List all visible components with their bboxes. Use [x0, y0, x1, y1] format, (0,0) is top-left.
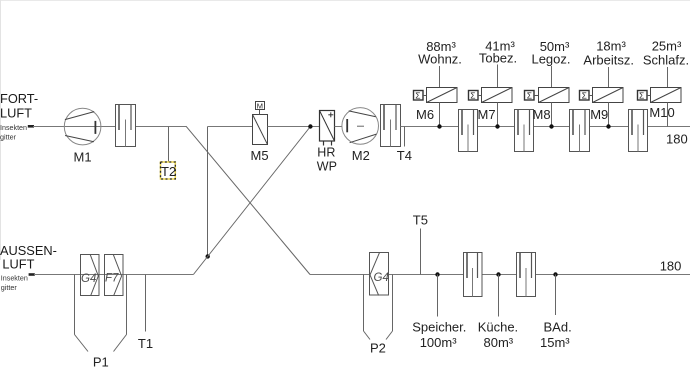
silencer manifold 2 [515, 110, 534, 152]
wire bypass vertical [207, 127, 209, 257]
fan M2 [342, 108, 379, 145]
wire P2 tap left [363, 275, 365, 332]
wire P1 tap left [74, 275, 76, 335]
wire AUSSENLUFT inlet [34, 274, 193, 276]
branch labels Legoz [531, 39, 570, 67]
sigma box M7 [469, 91, 482, 101]
svg-text:Arbeitsz.: Arbeitsz. [583, 53, 634, 68]
filter F7 [105, 255, 124, 296]
wire Bad branch [555, 275, 557, 316]
svg-text:Σ: Σ [582, 91, 587, 101]
wire branch M9 upper [608, 67, 610, 88]
node bypass junction [206, 254, 210, 258]
wire P2 tap right [392, 275, 394, 332]
svg-text:Speicher.: Speicher. [412, 320, 466, 335]
svg-text:25m³: 25m³ [652, 39, 682, 54]
svg-text:gitter: gitter [1, 283, 17, 292]
label Insektengitter bottom [1, 273, 28, 292]
svg-text:M1: M1 [74, 150, 92, 165]
svg-text:HR: HR [317, 146, 335, 160]
svg-text:Tobez.: Tobez. [479, 51, 517, 66]
svg-text:T2: T2 [161, 164, 176, 179]
svg-text:Küche.: Küche. [478, 320, 518, 335]
wire branch M6 upper [439, 66, 441, 88]
svg-text:M10: M10 [649, 105, 674, 120]
wire branch M7 lower [497, 103, 499, 127]
stem to T2 [168, 127, 170, 163]
wire P2 slant left [364, 331, 371, 340]
faint top border [0, 0, 690, 2]
wire branch M8 lower [551, 103, 553, 127]
svg-text:FORT-: FORT- [0, 91, 38, 106]
svg-text:M5: M5 [251, 148, 269, 163]
wire branch M6 lower [439, 103, 441, 127]
stem T4 [404, 127, 406, 147]
svg-text:T4: T4 [397, 148, 412, 163]
fan M1 [64, 108, 101, 145]
svg-text:F7: F7 [105, 273, 119, 285]
wire diagonal supply cross [193, 127, 310, 275]
svg-text:180: 180 [666, 132, 688, 147]
sensor T2 [161, 162, 177, 179]
svg-text:M9: M9 [590, 107, 608, 122]
filter G4 right [370, 253, 389, 296]
label Bad [540, 320, 572, 351]
svg-text:Schlafz.: Schlafz. [643, 53, 689, 68]
svg-text:gitter: gitter [0, 133, 16, 142]
wire P2 slant right [386, 331, 393, 340]
sigma box M8 [525, 91, 539, 101]
filter G4 left [81, 255, 100, 296]
svg-text:T1: T1 [138, 336, 153, 351]
node supply junction [308, 124, 312, 128]
svg-text:Σ: Σ [415, 91, 420, 101]
svg-text:Σ: Σ [527, 91, 532, 101]
svg-text:M6: M6 [416, 107, 434, 122]
svg-text:M7: M7 [478, 107, 496, 122]
wire HRWP to M2 [335, 126, 343, 128]
svg-text:Insekten: Insekten [0, 123, 27, 132]
branch labels Arbeitsz [583, 39, 634, 68]
label HR WP [317, 146, 337, 174]
sigma box M9 [580, 91, 593, 101]
node Speicher [435, 272, 439, 276]
svg-text:T5: T5 [413, 213, 428, 228]
svg-text:Σ: Σ [470, 91, 475, 101]
sigma box M10 [638, 91, 651, 101]
wire branch M10 upper [667, 67, 669, 88]
damper M9 [593, 88, 624, 103]
branch labels Schlafz [643, 39, 689, 68]
svg-text:BAd.: BAd. [544, 320, 572, 335]
svg-text:100m³: 100m³ [420, 335, 458, 350]
branch labels Tobez [479, 39, 517, 66]
svg-text:M2: M2 [352, 148, 370, 163]
silencer T4 [381, 105, 401, 147]
damper M5 [253, 115, 268, 145]
label Kueche [478, 320, 518, 351]
damper M7 [482, 88, 513, 103]
label FORTLUFT [0, 91, 38, 121]
silencer manifold 1 [459, 110, 478, 152]
damper M10 [651, 88, 682, 103]
wire bypass horizontal to M5 [208, 126, 253, 128]
label AUSSENLUFT [0, 243, 57, 272]
wire supply manifold [401, 126, 690, 128]
node Kueche [496, 272, 500, 276]
wire diagonal exhaust cross [186, 126, 310, 274]
svg-text:Wohnz.: Wohnz. [418, 52, 462, 67]
faint left border [0, 0, 2, 260]
wire P1 slant left [75, 335, 89, 352]
wire FORTLUFT to silencer [33, 126, 186, 128]
label Speicher [412, 320, 466, 351]
node M8 [549, 124, 553, 128]
silencer manifold 4 [629, 110, 648, 152]
wire branch M8 upper [551, 66, 553, 88]
wire P1 tap right [126, 275, 128, 335]
node Bad [553, 272, 557, 276]
silencer extract 2 [517, 253, 536, 297]
wire branch M7 upper [497, 65, 499, 88]
svg-text:M8: M8 [533, 107, 551, 122]
wire M5 to HRWP [268, 126, 320, 128]
svg-text:15m³: 15m³ [540, 335, 570, 350]
inlet tick top [28, 125, 34, 128]
wire Speicher branch [437, 275, 439, 317]
svg-text:G4: G4 [81, 273, 96, 285]
silencer manifold 3 [570, 110, 590, 152]
damper M6 [427, 88, 458, 103]
inlet tick bottom [29, 273, 35, 276]
node M6 [437, 124, 441, 128]
stem T5 [420, 229, 422, 275]
svg-text:P2: P2 [370, 341, 386, 356]
wire branch M10 lower [667, 103, 669, 127]
svg-text:M: M [257, 101, 263, 110]
wire branch M9 lower [608, 103, 610, 127]
svg-text:Insekten: Insekten [1, 273, 28, 282]
svg-text:Legoz.: Legoz. [531, 52, 570, 67]
label Insektengitter top [0, 123, 27, 142]
svg-text:Σ: Σ [639, 91, 644, 101]
svg-text:18m³: 18m³ [596, 39, 626, 54]
sigma box M6 [414, 91, 427, 101]
silencer extract 1 [464, 253, 483, 297]
node M7 [495, 124, 499, 128]
svg-text:80m³: 80m³ [484, 335, 514, 350]
svg-text:180: 180 [660, 258, 682, 273]
heat-recovery heat pump HR WP [320, 111, 335, 146]
stem T1 [145, 275, 147, 332]
svg-text:LUFT: LUFT [0, 106, 32, 121]
wire P1 slant right [114, 335, 127, 352]
silencer top-left [116, 105, 136, 147]
svg-text:G4: G4 [374, 272, 389, 284]
wire Kueche branch [498, 275, 500, 317]
motor box M above M5 [256, 101, 265, 114]
svg-text:P1: P1 [93, 355, 109, 370]
node M9 [606, 124, 610, 128]
svg-text:WP: WP [317, 159, 337, 173]
svg-text:LUFT: LUFT [2, 257, 34, 272]
branch labels Wohnz [418, 39, 462, 67]
damper M8 [539, 88, 570, 103]
wire extract manifold [310, 274, 690, 276]
